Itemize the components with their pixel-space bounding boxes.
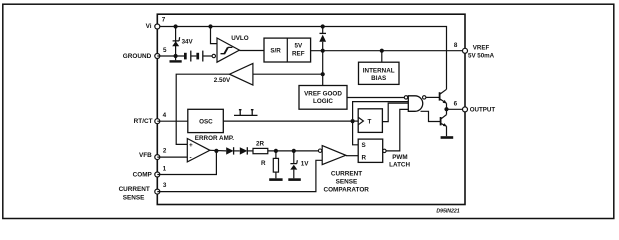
- svg-text:T: T: [367, 119, 371, 126]
- svg-text:4: 4: [163, 112, 167, 119]
- wire Vi to UVLO input: [211, 27, 218, 44]
- wire COMP feedback: [157, 151, 216, 175]
- svg-text:1V: 1V: [301, 160, 310, 167]
- op-amp 2.50V reference: [214, 63, 253, 85]
- svg-text:3: 3: [163, 182, 167, 189]
- node ground-zener junction: [174, 54, 178, 58]
- wire OSC node up to gate input 2: [353, 102, 409, 122]
- svg-text:S: S: [362, 142, 366, 149]
- pin 2 VFB: [139, 148, 167, 160]
- zener diode 1V: [290, 151, 309, 178]
- pin 3 CURRENT SENSE: [119, 182, 167, 202]
- svg-text:ERROR AMP.: ERROR AMP.: [195, 135, 234, 142]
- battery reference V2 (UVLO threshold): [196, 51, 202, 62]
- wire pin4 to OSC: [157, 120, 188, 122]
- wire UVLO to S/R: [239, 50, 264, 52]
- svg-text:CURRENT: CURRENT: [119, 186, 150, 193]
- svg-text:5V: 5V: [294, 42, 303, 49]
- node Vi-zener junction: [174, 24, 178, 28]
- node Vi-diode junction: [321, 24, 325, 28]
- node VREF-diode junction: [321, 49, 325, 53]
- block VREF GOOD LOGIC: [299, 86, 347, 110]
- wire output node to pin 6: [447, 108, 466, 110]
- block OSC: [188, 109, 224, 132]
- svg-text:Vi: Vi: [146, 23, 152, 30]
- label D95IN221: [436, 209, 459, 215]
- battery reference V1 (UVLO threshold): [184, 51, 191, 62]
- svg-text:6: 6: [454, 101, 458, 108]
- wire OSC node to T clock: [353, 120, 359, 122]
- svg-text:BIAS: BIAS: [371, 75, 386, 82]
- resistor R: [261, 151, 279, 178]
- pin 4 RT/CT: [134, 112, 167, 125]
- transistor Q2 (lower NPN): [441, 109, 447, 136]
- wire T output to gate input 3: [382, 103, 408, 122]
- svg-text:1: 1: [163, 166, 167, 173]
- wire pin3 to comparator: [157, 160, 322, 191]
- svg-text:LOGIC: LOGIC: [313, 98, 333, 105]
- op-amp UVLO comparator: [212, 35, 249, 62]
- ground symbol (1V zener): [288, 178, 301, 181]
- op-amp CURRENT SENSE COMPARATOR: [318, 146, 369, 194]
- wire latch output to gate input 4: [386, 109, 408, 150]
- wire OSC output to T/S: [223, 120, 352, 122]
- svg-text:7: 7: [162, 17, 166, 24]
- node OSC junction: [351, 119, 355, 123]
- wire gate to lower base: [421, 111, 441, 121]
- wire gate to upper base: [426, 96, 440, 98]
- pin 7 Vi: [146, 17, 166, 30]
- svg-text:OSC: OSC: [199, 118, 213, 125]
- svg-text:2R: 2R: [256, 140, 265, 147]
- clock waveform symbol: [234, 110, 258, 116]
- svg-text:CURRENT: CURRENT: [331, 171, 362, 178]
- node error amp output junction: [214, 149, 218, 153]
- diode D1: [226, 147, 240, 154]
- zener diode 34V: [172, 27, 193, 57]
- svg-text:2.50V: 2.50V: [214, 77, 231, 84]
- block INTERNAL BIAS: [359, 51, 400, 85]
- gate NOR (output stage): [404, 96, 426, 112]
- IC boundary box: [157, 14, 465, 204]
- svg-text:UVLO: UVLO: [231, 35, 249, 42]
- svg-text:SENSE: SENSE: [336, 179, 358, 186]
- wire pin2 to error amp: [157, 156, 187, 158]
- pin 5 GROUND: [123, 47, 167, 60]
- block S/R + 5V REF U2: [264, 38, 311, 62]
- node zener junction: [292, 149, 296, 153]
- wire VREF rail to pin 8: [311, 50, 465, 52]
- svg-text:COMPARATOR: COMPARATOR: [323, 187, 369, 194]
- svg-text:PWM: PWM: [392, 154, 407, 161]
- node output junction: [444, 107, 448, 111]
- svg-text:RT/CT: RT/CT: [134, 118, 153, 125]
- svg-text:SENSE: SENSE: [123, 195, 145, 202]
- latch PWM LATCH (S/R): [358, 139, 410, 168]
- node R junction: [274, 149, 278, 153]
- svg-text:R: R: [261, 160, 266, 167]
- svg-text:REF: REF: [292, 50, 305, 57]
- svg-text:VREF GOOD: VREF GOOD: [304, 91, 342, 98]
- op-amp ERROR AMP: [187, 135, 234, 162]
- svg-text:INTERNAL: INTERNAL: [363, 68, 395, 75]
- svg-text:5: 5: [163, 47, 167, 54]
- wire comparator to latch R: [346, 155, 358, 157]
- pin 8 VREF: [454, 42, 495, 59]
- node 2.5V tap junction: [321, 72, 325, 76]
- transistor Q1 (upper NPN): [440, 89, 447, 109]
- wire node to 2.50V amp: [253, 73, 323, 75]
- svg-text:R: R: [362, 155, 367, 162]
- wire 2R to comparator: [268, 150, 319, 152]
- svg-text:COMP: COMP: [133, 171, 153, 178]
- pin 1 COMP: [133, 166, 167, 179]
- wire VREF to 2.5V node: [322, 51, 324, 86]
- ground symbol (pin 5): [170, 56, 182, 63]
- svg-text:S/R: S/R: [270, 47, 281, 54]
- svg-text:-: -: [190, 155, 192, 162]
- svg-text:VFB: VFB: [139, 152, 152, 159]
- ground symbol (R): [269, 178, 282, 181]
- ground symbol (output stage): [441, 136, 454, 139]
- svg-text:LATCH: LATCH: [389, 161, 410, 168]
- wire OSC node down to latch S: [353, 121, 359, 145]
- svg-text:OUTPUT: OUTPUT: [470, 107, 496, 114]
- wire VREF GOOD to gate input 1: [347, 97, 404, 99]
- pin 6 OUTPUT: [454, 101, 496, 114]
- flip-flop T U3: [358, 109, 382, 133]
- wire 2.50V output to error amp: [176, 74, 229, 144]
- diode VREF to Vi: [319, 27, 326, 51]
- svg-text:2: 2: [163, 148, 167, 155]
- svg-text:D95IN221: D95IN221: [436, 209, 459, 215]
- svg-text:VREF: VREF: [473, 45, 490, 52]
- svg-text:GROUND: GROUND: [123, 53, 152, 60]
- wire error amp output: [210, 149, 226, 152]
- wire ground line: [157, 55, 212, 57]
- svg-text:+: +: [189, 142, 193, 149]
- node VREF-bias junction: [380, 49, 384, 53]
- resistor 2R: [253, 140, 268, 153]
- svg-text:5V 50mA: 5V 50mA: [468, 52, 495, 59]
- svg-text:8: 8: [454, 42, 458, 49]
- wire Vi rail: [157, 27, 446, 90]
- node Vi-UVLO junction: [208, 24, 212, 28]
- diode D2: [240, 147, 253, 154]
- svg-text:34V: 34V: [182, 39, 194, 46]
